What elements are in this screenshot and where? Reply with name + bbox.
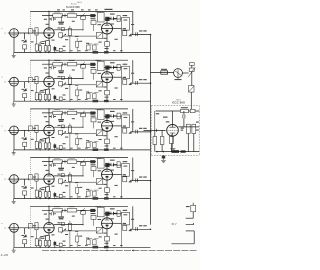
- svg-text:5x ECC 808: 5x ECC 808: [66, 5, 80, 9]
- svg-text:ECC 808: ECC 808: [172, 101, 185, 105]
- svg-text:Bl.4: Bl.4: [78, 2, 83, 4]
- svg-text:4-29: 4-29: [1, 253, 9, 257]
- svg-text:30 V: 30 V: [171, 224, 177, 226]
